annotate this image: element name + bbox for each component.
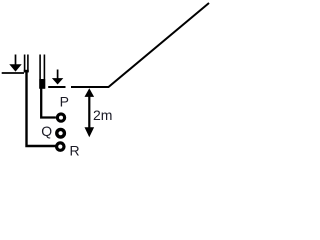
svg-text:2m: 2m [93, 107, 112, 123]
svg-text:P: P [60, 93, 69, 109]
svg-text:Q: Q [41, 123, 52, 139]
svg-text:R: R [70, 142, 80, 158]
